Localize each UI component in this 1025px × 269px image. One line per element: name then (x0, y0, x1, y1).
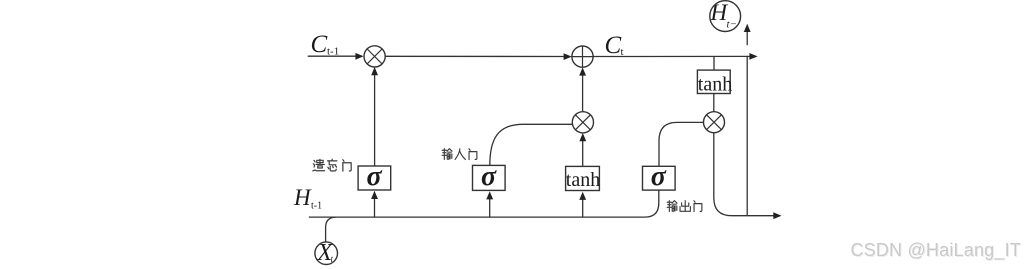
svg-text:σ: σ (481, 161, 497, 192)
svg-text:t-1: t-1 (327, 46, 339, 58)
svg-text:C: C (605, 32, 622, 59)
svg-text:t-1: t-1 (311, 201, 322, 212)
svg-text:σ: σ (651, 161, 667, 192)
svg-text:tanh: tanh (698, 74, 732, 96)
svg-text:t: t (621, 46, 624, 58)
svg-text:σ: σ (367, 161, 383, 192)
svg-text:H: H (293, 185, 312, 210)
svg-text:C: C (311, 31, 328, 58)
svg-text:tanh: tanh (566, 169, 600, 191)
